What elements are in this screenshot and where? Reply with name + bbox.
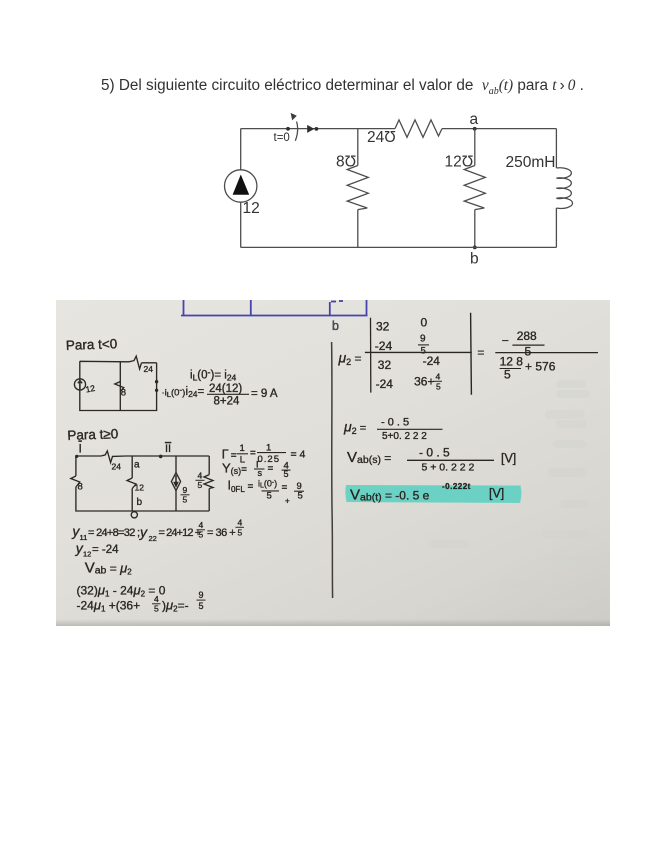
svg-text:5: 5 [199, 530, 204, 540]
sketch1 node dots [155, 380, 158, 383]
svg-text:- 0 . 5: - 0 . 5 [381, 417, 409, 429]
eq i24 = 24(12)/(8+24) = 9 A [186, 383, 278, 408]
sketch2 resistor 24 zigzag [101, 451, 126, 463]
svg-text:5: 5 [436, 382, 441, 392]
svg-text:5: 5 [284, 469, 289, 479]
ghost bleed-through marks [430, 380, 590, 617]
svg-text:8: 8 [78, 482, 83, 493]
svg-text:=: = [250, 448, 256, 459]
svg-text:= 4: = 4 [291, 449, 306, 461]
sketch1 outer loop wires [80, 361, 157, 410]
svg-text:=: = [268, 464, 274, 475]
svg-text:22: 22 [149, 534, 157, 543]
svg-text:−: − [502, 334, 509, 348]
svg-text:0: 0 [421, 316, 428, 330]
svg-text:-24: -24 [375, 339, 393, 353]
svg-text:-24: -24 [423, 354, 441, 368]
svg-text:5: 5 [183, 495, 188, 505]
svg-text:8: 8 [121, 388, 126, 399]
svg-text:y: y [139, 524, 148, 540]
svg-text:)μ2=-: )μ2=- [162, 598, 189, 614]
inductor 250mH [506, 129, 573, 248]
svg-text:Para t<0: Para t<0 [66, 336, 118, 353]
svg-text:-0.222t: -0.222t [442, 482, 471, 491]
svg-text:5: 5 [199, 601, 204, 611]
eq u2 = -0.5/(s+0.222) [343, 417, 443, 443]
svg-text:s: s [258, 468, 263, 478]
svg-text:9: 9 [420, 334, 426, 345]
svg-text:36+: 36+ [414, 375, 434, 389]
resistor 8 mho (vertical) [336, 129, 368, 248]
svg-text:4: 4 [238, 518, 243, 528]
eq Vab(s) = -0.5/(s+0.222) [V] [347, 446, 516, 474]
photographed worksheet [56, 300, 610, 626]
eq y11 = 24+8=32 ; y22 = 24+12+4/s = 36+4/s [71, 518, 244, 544]
svg-text:288: 288 [517, 329, 537, 343]
svg-text:b: b [332, 319, 339, 333]
sketch2 source value 9/s [181, 485, 190, 505]
svg-text:= 9 A: = 9 A [251, 388, 278, 400]
svg-text:8+24: 8+24 [214, 396, 241, 408]
svg-text:= 24+8=32 ;: = 24+8=32 ; [88, 527, 140, 539]
svg-text:32: 32 [378, 358, 392, 372]
svg-text:9: 9 [183, 485, 188, 495]
eq y12 = -24 [75, 540, 119, 559]
wire top-left segment [241, 128, 395, 130]
eq I0FL = iL(0-)/s = 9/s [228, 479, 305, 506]
node a [470, 111, 479, 131]
sketch2 resistor 12 tick [127, 478, 136, 489]
svg-text:5: 5 [525, 345, 532, 359]
column divider line [332, 342, 333, 598]
wire top right [442, 128, 556, 130]
sketch2: circuit for t>=0 [71, 451, 213, 518]
svg-text:12: 12 [85, 383, 96, 395]
resistor 24 mho (horizontal) [367, 120, 442, 146]
svg-text:a: a [134, 460, 140, 471]
sketch2 dependent source diamond [171, 473, 180, 491]
svg-text:[V]: [V] [501, 452, 516, 466]
resistor 12 mho (vertical) [445, 129, 486, 248]
sketch1 current source 12 [74, 379, 85, 390]
svg-text:= 24+12 +: = 24+12 + [159, 527, 201, 539]
sketch1 resistor 8 tick [115, 382, 124, 392]
svg-text:5: 5 [198, 480, 203, 490]
svg-text:- 0 . 5: - 0 . 5 [419, 446, 450, 460]
svg-text:=: = [282, 483, 288, 494]
svg-text:5: 5 [504, 368, 511, 382]
svg-text:i24=: i24= [186, 386, 205, 399]
svg-text:b: b [137, 497, 143, 508]
eq Vab(t) = -0.5 e^-0.222t [V] (highlighted) [350, 482, 504, 504]
svg-text:μ2 =: μ2 = [343, 419, 366, 437]
svg-text:iL(0-): iL(0-) [258, 479, 277, 490]
sketch2 middle branch [131, 456, 133, 511]
svg-text:4: 4 [436, 372, 441, 382]
svg-text:(32)μ1 - 24μ2 = 0: (32)μ1 - 24μ2 = 0 [77, 583, 166, 599]
sketch2 resistor 8 tick [71, 476, 80, 487]
svg-text:I0FL =: I0FL = [228, 479, 254, 495]
svg-text:-24μ1 +(36+: -24μ1 +(36+ [77, 598, 141, 614]
svg-text:= 36 +: = 36 + [207, 527, 235, 539]
svg-text:9: 9 [199, 590, 204, 600]
svg-text:1: 1 [240, 443, 245, 454]
sketch2 terminal circle [131, 512, 137, 518]
current source 12 [225, 129, 260, 248]
blue figure bottom edge (cropped circuit, blue ink) [181, 300, 368, 316]
svg-text:[V]: [V] [489, 487, 504, 501]
svg-text:4: 4 [199, 520, 204, 530]
svg-text:5: 5 [267, 491, 272, 502]
eq u2 = determinant quotient [338, 313, 599, 395]
svg-text:+ 576: + 576 [525, 360, 556, 374]
highlight bar [345, 485, 521, 503]
sketch1 middle branch wire [119, 362, 121, 411]
svg-text:Vab = μ2: Vab = μ2 [85, 560, 133, 577]
eq (32)u1 - 24u2 = 0 [77, 583, 166, 599]
svg-text:12 8: 12 8 [500, 355, 524, 369]
svg-text:Γ=: Γ= [222, 448, 237, 462]
svg-text:24: 24 [144, 364, 154, 374]
problem title [101, 78, 584, 97]
svg-text:12: 12 [135, 483, 145, 493]
svg-text:Para t≥0: Para t≥0 [67, 426, 118, 443]
svg-text:iL(0-)= i24: iL(0-)= i24 [190, 367, 237, 382]
svg-text:I: I [79, 442, 82, 456]
svg-text:·iL(0-): ·iL(0-) [162, 386, 186, 400]
eq -24u1 + (36+4/s)u2 = -9/s [77, 590, 206, 614]
svg-text:5: 5 [154, 604, 159, 614]
eq Vab = u2 [85, 560, 133, 577]
sketch2 outer loop wires [76, 456, 209, 511]
sketch1: circuit for t<0 [74, 356, 158, 410]
svg-text:=: = [477, 346, 484, 360]
svg-text:1: 1 [266, 443, 271, 454]
svg-text:5+0. 2 2 2: 5+0. 2 2 2 [382, 431, 427, 442]
eq Y(s) = Gamma/s = 4/s [222, 460, 291, 479]
svg-text:Vab(s) =: Vab(s) = [347, 449, 391, 466]
node b [470, 246, 479, 268]
svg-text:32: 32 [376, 320, 390, 334]
svg-text:24(12): 24(12) [209, 383, 242, 395]
svg-text:24: 24 [112, 462, 122, 472]
svg-text:4: 4 [154, 594, 159, 604]
wire bottom [241, 246, 557, 248]
svg-text:-24: -24 [376, 377, 394, 391]
svg-text:12: 12 [83, 550, 91, 559]
eq Gamma = 1/L = 1/0.25 = 4 [222, 443, 306, 466]
sketch2 right admittance 4/s with zigzag [204, 475, 213, 489]
svg-text:II: II [165, 443, 171, 455]
svg-text:5 + 0. 2 2 2: 5 + 0. 2 2 2 [422, 462, 475, 474]
determinant bars [370, 318, 372, 393]
sketch2 node dots [75, 455, 78, 458]
svg-text:+: + [285, 497, 290, 506]
svg-text:5: 5 [238, 528, 243, 538]
svg-text:μ2 =: μ2 = [338, 350, 362, 368]
svg-text:= -24: = -24 [92, 544, 119, 556]
sketch1 resistor 24 spike [129, 356, 142, 369]
svg-text:5: 5 [298, 491, 303, 502]
svg-text:4: 4 [198, 471, 203, 481]
switch t=0 [274, 113, 319, 144]
